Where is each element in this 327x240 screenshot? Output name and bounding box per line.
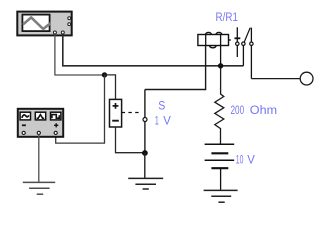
oscilloscope terminal B <box>61 31 64 34</box>
oscilloscope screen <box>22 15 49 32</box>
node 3 junction dot <box>142 150 148 156</box>
svg-text:S: S <box>158 100 165 113</box>
node 2 junction dot <box>218 63 223 68</box>
wire node 1 to control box top <box>105 75 116 100</box>
sine button <box>20 112 30 120</box>
oscilloscope knob 1 <box>68 17 71 20</box>
svg-text:V: V <box>247 153 255 166</box>
coil bottom bump <box>209 46 216 48</box>
fg terminal common <box>37 131 40 134</box>
coil right pin <box>220 35 222 66</box>
relay NC contact <box>235 27 241 57</box>
oscilloscope knob 2 <box>68 23 71 26</box>
relay common contact with arm <box>242 28 251 66</box>
switch S vertical wire top <box>144 90 146 119</box>
relay coil K box <box>198 32 231 65</box>
switch S vertical wire bottom <box>144 122 146 153</box>
ground G1 <box>23 182 55 194</box>
oscilloscope terminal A <box>53 31 56 34</box>
coil armature nub <box>228 39 230 41</box>
dashed control link <box>122 112 142 114</box>
minus label <box>22 124 26 126</box>
svg-text:Ohm: Ohm <box>250 103 277 117</box>
resistor R1 200 Ohm <box>215 67 224 144</box>
coil left pin <box>205 35 207 46</box>
wire node 1 down to function generator plus terminal <box>56 75 105 143</box>
coil top bump 2 <box>216 32 222 34</box>
fg terminal plus <box>54 131 57 134</box>
svg-text:R/R1: R/R1 <box>216 11 238 24</box>
triangle button <box>35 112 45 120</box>
voltage-controlled switch control box (+/-) <box>110 99 122 127</box>
wire scope terminal A down and right to node 1 <box>55 34 105 75</box>
node 1 junction dot <box>102 72 107 77</box>
switch S contact circle <box>143 118 147 122</box>
output terminal circle <box>300 72 313 85</box>
oscilloscope sine trace <box>24 17 50 29</box>
wire NO contact to output terminal <box>251 78 300 80</box>
svg-text:V: V <box>163 114 171 127</box>
ground G2 below node 3 <box>128 153 163 189</box>
svg-text:1: 1 <box>155 115 159 128</box>
wire fg common terminal to ground G1 <box>38 135 40 183</box>
battery V1 10V plates <box>205 144 235 190</box>
svg-text:10: 10 <box>236 154 244 168</box>
oscilloscope XSC1 body <box>17 12 71 36</box>
ground G3 below battery <box>204 190 238 202</box>
wire scope terminal B down and right to node 2 <box>63 34 244 66</box>
relay NO contact <box>250 28 253 79</box>
svg-text:200: 200 <box>231 105 245 118</box>
square button <box>51 112 61 120</box>
fg terminal minus <box>22 131 25 134</box>
wire switch to relay coil <box>145 46 206 90</box>
function generator body <box>18 109 63 137</box>
coil top bump 1 <box>206 32 212 34</box>
plus label <box>54 123 58 127</box>
wire control box bottom to node 3 <box>116 127 145 153</box>
